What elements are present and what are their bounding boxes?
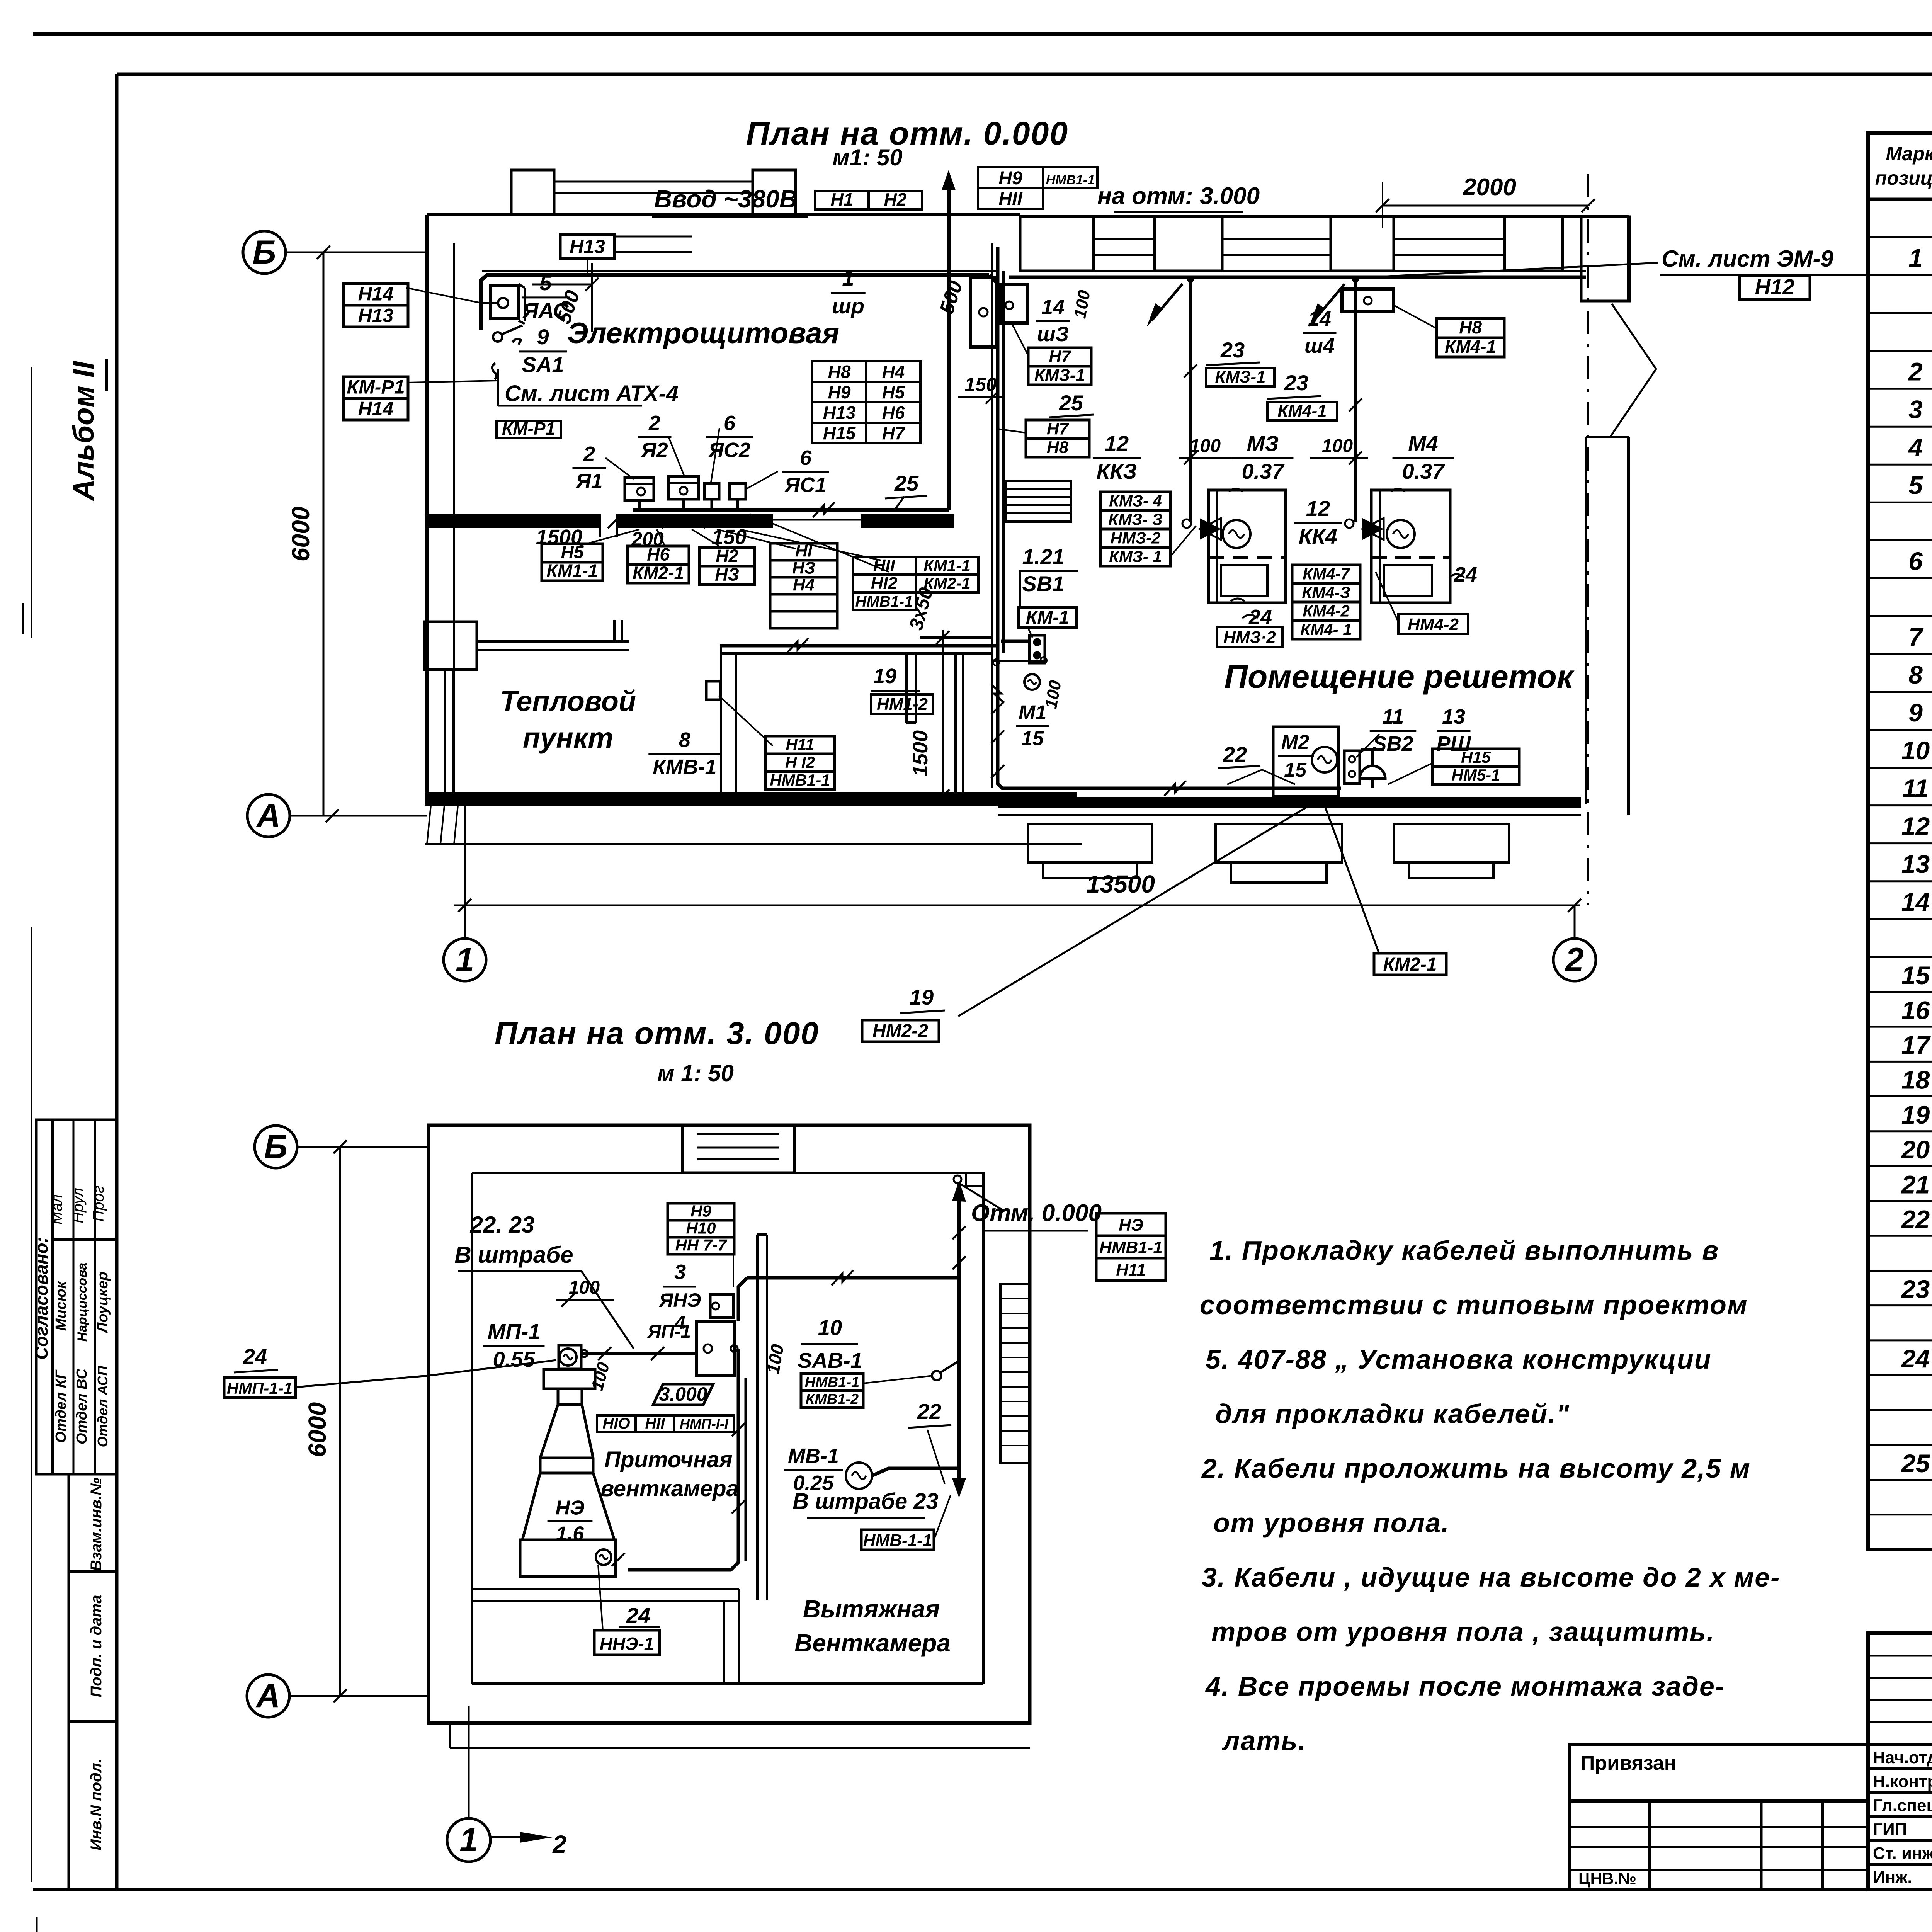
svg-text:НМ1-2: НМ1-2 xyxy=(877,695,928,714)
svg-text:Инв.N подл.: Инв.N подл. xyxy=(88,1759,105,1850)
svg-text:Н5: Н5 xyxy=(882,382,905,402)
svg-text:19: 19 xyxy=(1901,1100,1930,1129)
label table H8H4 H9H5 H13H6 H15H7 xyxy=(812,361,866,382)
svg-text:НЗ: НЗ xyxy=(715,564,739,584)
window bay lines left xyxy=(554,181,753,183)
svg-text:12: 12 xyxy=(1901,812,1930,840)
svg-text:НМП-I-I: НМП-I-I xyxy=(680,1416,729,1432)
right section pilaster blocks xyxy=(1020,217,1094,271)
top wall window sills left xyxy=(613,236,692,238)
right top corner pilaster xyxy=(1581,217,1630,301)
svg-text:Н9: Н9 xyxy=(828,382,851,402)
svg-text:24: 24 xyxy=(1248,605,1272,629)
svg-text:22: 22 xyxy=(1901,1205,1930,1233)
svg-text:Нарциссова: Нарциссова xyxy=(75,1263,90,1342)
svg-text:10: 10 xyxy=(818,1315,842,1340)
svg-text:Приточная: Приточная xyxy=(604,1447,732,1472)
sidebar department rows xyxy=(73,1120,75,1474)
teplovoy east wall lower xyxy=(954,655,957,797)
svg-text:м 1: 50: м 1: 50 xyxy=(657,1060,734,1086)
axis A lower xyxy=(247,1675,289,1717)
device SA1 switch xyxy=(493,332,502,342)
dim 2000 top xyxy=(1383,205,1588,207)
cable drop to M3 xyxy=(1189,277,1192,522)
label box H7/KM3-1 xyxy=(1028,348,1091,366)
svg-text:1. Прокладку кабелей выполн: 1. Прокладку кабелей выполнить в xyxy=(1209,1235,1719,1265)
svg-text:НМВ1-1: НМВ1-1 xyxy=(805,1374,859,1390)
svg-text:НМВ1-1: НМВ1-1 xyxy=(855,593,913,610)
dim 500 vertical line xyxy=(591,263,593,332)
svg-text:Н1: Н1 xyxy=(831,189,854,209)
svg-text:Отдел КГ: Отдел КГ xyxy=(53,1369,69,1443)
svg-text:2: 2 xyxy=(552,1830,566,1858)
svg-text:3: 3 xyxy=(1908,395,1923,424)
riser cable lower plan xyxy=(957,1182,961,1488)
inventory table below privyazan xyxy=(1570,1801,1868,1889)
svg-text:4: 4 xyxy=(1908,433,1923,462)
label box H8/KM4-1 xyxy=(1437,318,1504,338)
svg-text:НМ5-1: НМ5-1 xyxy=(1451,766,1500,784)
svg-text:Отдел АСП: Отдел АСП xyxy=(95,1366,111,1447)
svg-text:12: 12 xyxy=(1306,496,1330,520)
svg-text:100: 100 xyxy=(1041,679,1065,710)
svg-text:В штрабе 23: В штрабе 23 xyxy=(793,1489,939,1514)
label box H11/H12/HMV1-1 teplovoy xyxy=(765,736,835,754)
svg-text:12: 12 xyxy=(1105,431,1129,456)
cable break on riser xyxy=(991,684,1004,703)
label box H10 H11 NMP-1-1 xyxy=(597,1415,636,1432)
svg-text:Н8: Н8 xyxy=(828,362,851,382)
svg-text:КМЗ- 4: КМЗ- 4 xyxy=(1109,492,1162,510)
label box H11 KM1-1 / H12 KM2-1 / HMV1-1 xyxy=(853,557,916,575)
svg-text:14: 14 xyxy=(1901,888,1930,916)
device Sh3 cabinet xyxy=(1001,284,1027,323)
svg-text:Тепловой: Тепловой xyxy=(500,685,636,717)
svg-text:21: 21 xyxy=(1901,1170,1930,1199)
svg-text:10: 10 xyxy=(1901,736,1930,765)
svg-text:КМ4-7: КМ4-7 xyxy=(1303,565,1350,583)
svg-text:5: 5 xyxy=(539,270,552,295)
svg-text:КК4: КК4 xyxy=(1299,524,1337,548)
grate unit M3 xyxy=(1209,490,1286,603)
top wall pilaster 1 xyxy=(511,170,554,215)
svg-text:Венткамера: Венткамера xyxy=(794,1629,951,1657)
cable ticks xyxy=(991,701,1004,714)
device YAAS box xyxy=(491,286,519,319)
svg-text:Электрощитовая: Электрощитовая xyxy=(567,317,840,350)
porch steps 2 xyxy=(1216,824,1342,862)
svg-text:15: 15 xyxy=(1284,759,1307,781)
svg-text:Я1: Я1 xyxy=(575,469,602,493)
ladder hatch left of grate room xyxy=(1005,481,1071,522)
cable stub top right corner lower xyxy=(966,1173,983,1186)
device boxes Ya1 Ya2 YaS2 YaS1 xyxy=(625,478,654,500)
partition pritochnaya/vytyazhnaya xyxy=(756,1235,759,1600)
svg-text:2: 2 xyxy=(1565,941,1584,978)
svg-text:SВ1: SВ1 xyxy=(1022,571,1065,596)
svg-text:Н8: Н8 xyxy=(1459,317,1482,337)
svg-text:КМЗ- З: КМЗ- З xyxy=(1108,510,1162,528)
svg-text:шр: шр xyxy=(832,294,864,318)
svg-text:22: 22 xyxy=(917,1399,941,1423)
title block name rows xyxy=(1868,1743,1932,1746)
electroshchitovaya bottom wall xyxy=(425,514,600,528)
bus cable under Ya boxes xyxy=(633,508,949,512)
label box H2/H3 xyxy=(699,548,755,566)
axis B upper xyxy=(243,231,286,274)
svg-text:9: 9 xyxy=(537,325,549,349)
sidebar approvals block xyxy=(36,1120,117,1474)
svg-text:См. лист АТХ-4: См. лист АТХ-4 xyxy=(505,381,679,406)
label box H1/H3/H4 xyxy=(770,543,837,560)
teplovoy inner partition T xyxy=(905,653,908,723)
porch steps 3 xyxy=(1394,824,1509,862)
cable YaP-1 down and around xyxy=(628,1349,738,1570)
title block small rows upper-left xyxy=(1868,1655,1932,1657)
svg-text:пункт: пункт xyxy=(523,722,613,754)
lower building inner wall lines xyxy=(471,1173,473,1684)
svg-text:м1: 50: м1: 50 xyxy=(832,145,902,170)
svg-text:Привязан: Привязан xyxy=(1580,1752,1676,1774)
svg-text:НI: НI xyxy=(795,541,813,560)
svg-text:500: 500 xyxy=(935,278,967,317)
label box KM3-4..KM3-1 xyxy=(1100,492,1170,510)
svg-text:3. Кабели , идущие на высо: 3. Кабели , идущие на высоте до 2 х ме- xyxy=(1202,1562,1780,1592)
svg-text:Н13: Н13 xyxy=(823,403,856,423)
leader KM-P1 to SA1 xyxy=(408,381,498,383)
svg-text:Н15: Н15 xyxy=(823,423,856,443)
svg-text:4. Все проемы после монтаж: 4. Все проемы после монтажа заде- xyxy=(1205,1671,1725,1701)
svg-text:22: 22 xyxy=(1223,742,1247,767)
svg-text:КМВ1-2: КМВ1-2 xyxy=(806,1391,859,1407)
svg-text:23: 23 xyxy=(1901,1275,1930,1303)
svg-text:6: 6 xyxy=(724,412,736,435)
axis 2 upper xyxy=(1553,939,1596,981)
svg-text:В штрабе: В штрабе xyxy=(454,1242,573,1268)
upper building: top wall right section xyxy=(1020,215,1629,218)
sheet top edge line xyxy=(33,32,1932,36)
svg-text:шЗ: шЗ xyxy=(1037,323,1069,346)
spec table row lines xyxy=(1868,236,1932,238)
svg-text:Н7: Н7 xyxy=(1049,347,1071,366)
svg-text:1.6: 1.6 xyxy=(556,1523,584,1545)
label box H12 xyxy=(1740,276,1810,299)
svg-text:6: 6 xyxy=(800,446,812,469)
svg-text:на отм: 3.000: на отм: 3.000 xyxy=(1097,183,1260,209)
leader KM2-1 bottom xyxy=(1325,808,1379,954)
svg-text:Гл.спец.: Гл.спец. xyxy=(1873,1796,1932,1815)
svg-text:позиция: позиция xyxy=(1875,167,1932,189)
label box NE/NMV1-1/H11 right xyxy=(1096,1213,1166,1236)
label box NM4-2 xyxy=(1398,614,1468,634)
bus break symbol xyxy=(813,502,835,517)
cable down right side of room xyxy=(989,275,998,284)
see sheet EM-9 leader xyxy=(1387,263,1658,276)
svg-text:Н.контр.: Н.контр. xyxy=(1873,1772,1932,1791)
svg-text:23: 23 xyxy=(1284,371,1308,395)
svg-text:1.21: 1.21 xyxy=(1022,544,1065,569)
svg-text:Лоуцкер: Лоуцкер xyxy=(95,1272,111,1334)
svg-text:КМ1-1: КМ1-1 xyxy=(546,560,598,580)
label 3.000 mark xyxy=(653,1384,713,1405)
svg-text:13: 13 xyxy=(1442,705,1465,728)
svg-text:НII: НII xyxy=(645,1415,665,1432)
svg-text:НМВ-1-1: НМВ-1-1 xyxy=(863,1531,932,1550)
svg-text:Н14: Н14 xyxy=(358,398,394,420)
svg-text:Согласовано:: Согласовано: xyxy=(31,1237,51,1360)
bottom cable grate room break xyxy=(1164,781,1186,796)
upper building: bottom wall left (A axis) xyxy=(425,792,1077,806)
svg-text:венткамера: венткамера xyxy=(600,1476,739,1501)
wall between left rooms and grate room xyxy=(991,243,993,788)
svg-text:13: 13 xyxy=(1901,850,1930,878)
label box H14/H13 xyxy=(344,284,408,305)
vertical dim 6000 upper xyxy=(323,252,325,816)
leader H14 box to device xyxy=(406,288,481,303)
arrow marks on top cable xyxy=(1151,284,1182,321)
device KM-1 pushbutton xyxy=(1029,635,1045,663)
svg-text:2: 2 xyxy=(583,442,595,466)
vent unit pritochnaya funnel xyxy=(544,1369,595,1389)
svg-text:КМ-1: КМ-1 xyxy=(1026,607,1069,628)
svg-text:КМ1-1: КМ1-1 xyxy=(923,556,971,575)
cable teplovoy horizontal xyxy=(721,644,998,648)
svg-text:15: 15 xyxy=(1021,728,1044,750)
svg-text:Н7: Н7 xyxy=(1047,419,1070,438)
svg-text:Н9: Н9 xyxy=(998,168,1022,189)
label box KM-1 xyxy=(1019,607,1077,628)
spec table outer frame xyxy=(1868,133,1932,1549)
motor small at funnel bottom xyxy=(596,1549,611,1565)
vvod 380V riser cable xyxy=(947,182,951,510)
svg-text:Н6: Н6 xyxy=(647,544,670,564)
device Sh4 cabinet xyxy=(1342,289,1394,311)
svg-text:Н9: Н9 xyxy=(690,1202,711,1220)
svg-text:25: 25 xyxy=(894,471,919,495)
svg-text:для прокладки кабелей.": для прокладки кабелей." xyxy=(1215,1399,1570,1429)
svg-text:0.37: 0.37 xyxy=(1242,459,1285,483)
svg-text:5. 407-88 „ Установка констру: 5. 407-88 „ Установка конструкции xyxy=(1206,1344,1712,1374)
leader to MP-1 xyxy=(429,1360,556,1376)
upper building: top wall left section xyxy=(427,213,1020,216)
svg-text:КМ2-1: КМ2-1 xyxy=(1383,954,1437,975)
label box H9 HMV1-1 / H11 xyxy=(978,167,1043,188)
svg-text:Н4: Н4 xyxy=(882,362,905,382)
horizontal dim 13500 xyxy=(454,905,1580,906)
motor M2 cluster xyxy=(1273,727,1338,796)
svg-text:КМ4-1: КМ4-1 xyxy=(1445,337,1496,357)
svg-text:Н13: Н13 xyxy=(570,236,605,257)
svg-text:КМВ-1: КМВ-1 xyxy=(653,755,716,779)
svg-text:11: 11 xyxy=(1902,774,1929,803)
svg-text:ЯНЭ: ЯНЭ xyxy=(658,1289,701,1311)
lower building outer walls xyxy=(429,1125,1030,1723)
label box KM-P1/H14 xyxy=(344,377,408,398)
svg-text:Н I2: Н I2 xyxy=(785,753,815,771)
motor MV-1 xyxy=(846,1463,872,1489)
svg-text:А: А xyxy=(255,1677,280,1714)
svg-text:20: 20 xyxy=(1901,1135,1930,1164)
right wall door swing xyxy=(1612,304,1656,369)
axis B lower xyxy=(255,1126,297,1168)
label box H13 on wall xyxy=(560,235,614,259)
svg-text:Прог: Прог xyxy=(90,1185,107,1221)
svg-text:Альбом II: Альбом II xyxy=(67,361,100,501)
axis 1 upper xyxy=(444,939,486,981)
svg-text:Помещение решеток: Помещение решеток xyxy=(1225,658,1575,695)
svg-text:НМП-1-1: НМП-1-1 xyxy=(227,1379,293,1397)
title block outline xyxy=(1868,1633,1932,1889)
svg-text:7: 7 xyxy=(1908,622,1924,651)
svg-text:НМ2-2: НМ2-2 xyxy=(872,1021,928,1041)
svg-text:2: 2 xyxy=(648,412,660,435)
grate room top cable xyxy=(1009,276,1586,279)
svg-text:КМ4-1: КМ4-1 xyxy=(1277,401,1327,420)
svg-text:МЗ: МЗ xyxy=(1247,431,1279,456)
svg-text:соответствии с типовым проек: соответствии с типовым проектом xyxy=(1200,1290,1748,1320)
top porch opening xyxy=(682,1125,794,1173)
upper building: bottom wall right room xyxy=(998,797,1581,808)
svg-text:Н8: Н8 xyxy=(1047,438,1069,457)
svg-text:Отдел ВС: Отдел ВС xyxy=(74,1368,90,1444)
svg-text:ш4: ш4 xyxy=(1304,334,1335,357)
svg-text:НII: НII xyxy=(873,556,895,575)
device SB2 xyxy=(1344,751,1360,784)
svg-text:0.37: 0.37 xyxy=(1402,459,1446,483)
svg-text:НЭ: НЭ xyxy=(556,1497,585,1519)
svg-text:НЭ: НЭ xyxy=(1119,1216,1143,1235)
svg-text:КМ-Р1: КМ-Р1 xyxy=(502,418,555,439)
label box H1 H2 xyxy=(815,191,869,209)
upper building: left wall xyxy=(425,215,429,802)
svg-text:6: 6 xyxy=(1908,547,1923,575)
svg-text:Б: Б xyxy=(264,1128,288,1165)
svg-text:150: 150 xyxy=(964,374,997,395)
svg-text:19: 19 xyxy=(873,665,896,688)
privyazan box xyxy=(1570,1744,1868,1801)
svg-text:14: 14 xyxy=(1041,296,1065,319)
svg-text:Отм. 0.000: Отм. 0.000 xyxy=(971,1200,1102,1226)
svg-text:КМ2-1: КМ2-1 xyxy=(633,563,684,583)
svg-text:ЯП-1: ЯП-1 xyxy=(647,1321,691,1342)
svg-text:8: 8 xyxy=(1908,660,1923,689)
svg-text:Взам.инв.№: Взам.инв.№ xyxy=(88,1478,105,1571)
svg-text:8: 8 xyxy=(679,728,690,752)
svg-text:А: А xyxy=(256,797,281,834)
device YaP-1 cabinet xyxy=(697,1321,734,1376)
heating duct structure left xyxy=(425,622,477,670)
KM-1 wall stub cable xyxy=(1001,640,1029,643)
svg-text:План на отм. 0.000: План на отм. 0.000 xyxy=(746,115,1068,151)
bus connections up xyxy=(638,499,641,510)
axis A upper xyxy=(247,794,290,837)
label box H6/KM2-1 xyxy=(628,546,689,565)
cable MP-1 to YaP-1 xyxy=(581,1352,697,1355)
svg-text:Н13: Н13 xyxy=(358,305,394,327)
svg-text:Б: Б xyxy=(253,234,276,271)
svg-text:Ввод ~380В: Ввод ~380В xyxy=(654,185,797,213)
svg-text:Подп. и дата: Подп. и дата xyxy=(88,1595,105,1697)
svg-text:25: 25 xyxy=(1901,1449,1930,1478)
svg-text:Мисюк: Мисюк xyxy=(53,1281,69,1331)
svg-text:SА1: SА1 xyxy=(522,352,564,377)
bottom step outside xyxy=(450,1747,1030,1749)
svg-text:КМ4- 1: КМ4- 1 xyxy=(1300,620,1352,638)
svg-text:НМВ1-1: НМВ1-1 xyxy=(1046,173,1095,187)
svg-text:Н5: Н5 xyxy=(561,542,584,562)
svg-text:100: 100 xyxy=(588,1360,613,1393)
svg-text:ГИП: ГИП xyxy=(1873,1820,1907,1839)
svg-text:22. 23: 22. 23 xyxy=(470,1212,535,1238)
drawing frame border xyxy=(117,73,1932,76)
svg-text:КМЗ-1: КМЗ-1 xyxy=(1034,366,1085,384)
vertical dim 6000 lower xyxy=(339,1147,341,1696)
svg-text:11: 11 xyxy=(1382,705,1404,728)
device small box YaNE xyxy=(710,1294,733,1318)
svg-text:23: 23 xyxy=(1220,338,1245,362)
leader lines from Ya boxes to labels below xyxy=(580,529,639,546)
svg-text:16: 16 xyxy=(1901,996,1930,1024)
sidebar box podp i data xyxy=(69,1571,117,1721)
ShR cabinet on right wall xyxy=(971,277,996,347)
svg-text:НМВ1-1: НМВ1-1 xyxy=(770,771,830,789)
svg-text:6000: 6000 xyxy=(287,507,315,561)
svg-text:6000: 6000 xyxy=(303,1402,331,1457)
svg-text:18: 18 xyxy=(1901,1066,1930,1094)
svg-text:Н14: Н14 xyxy=(358,283,394,305)
frame bottom extension to sheet edge xyxy=(33,1888,117,1891)
sidebar box inv n podl xyxy=(69,1721,117,1889)
svg-text:КМ4-З: КМ4-З xyxy=(1302,583,1350,601)
upper building: right wall xyxy=(1627,217,1630,301)
svg-text:1: 1 xyxy=(456,941,474,978)
label box H9/H10/HH7-7 xyxy=(668,1203,734,1220)
spec table header row xyxy=(1868,198,1932,201)
svg-text:24: 24 xyxy=(626,1603,650,1628)
svg-text:Н6: Н6 xyxy=(882,403,905,423)
svg-text:1: 1 xyxy=(459,1821,478,1859)
svg-text:SАВ-1: SАВ-1 xyxy=(798,1348,862,1372)
svg-text:25: 25 xyxy=(1059,391,1083,415)
svg-text:1: 1 xyxy=(842,266,854,290)
svg-text:3.000: 3.000 xyxy=(659,1383,707,1405)
svg-text:КМЗ- 1: КМЗ- 1 xyxy=(1109,547,1162,565)
svg-text:Н15: Н15 xyxy=(1461,748,1491,766)
switch SAB-1 device xyxy=(932,1371,941,1380)
teplovoy inner wall top xyxy=(721,652,991,655)
svg-text:НI2: НI2 xyxy=(871,574,898,593)
axis 1 lower xyxy=(447,1818,490,1862)
svg-text:См. лист ЭМ-9: См. лист ЭМ-9 xyxy=(1662,246,1834,272)
label box NMV1-1/KMV1-2 xyxy=(801,1374,863,1391)
svg-text:НМВ1-1: НМВ1-1 xyxy=(1099,1238,1163,1257)
svg-text:14: 14 xyxy=(1308,307,1331,330)
svg-text:М4: М4 xyxy=(1408,431,1438,456)
svg-text:НМ4-2: НМ4-2 xyxy=(1408,615,1459,634)
socket RSh symbol xyxy=(1360,766,1385,779)
svg-text:ННЭ-1: ННЭ-1 xyxy=(600,1634,654,1654)
svg-text:Мал: Мал xyxy=(48,1194,65,1225)
label box KM4-7..KM4-1 xyxy=(1292,565,1360,583)
lower bottom wall inner line xyxy=(472,1682,983,1685)
right section window sills xyxy=(1094,238,1155,240)
svg-text:1: 1 xyxy=(1908,244,1923,272)
top cable lower plan xyxy=(747,1276,959,1280)
svg-text:Марка: Марка xyxy=(1886,143,1932,165)
label box NMV-1-1 xyxy=(861,1530,934,1550)
svg-text:НМЗ·2: НМЗ·2 xyxy=(1223,628,1276,647)
svg-text:Н11: Н11 xyxy=(1116,1260,1146,1279)
